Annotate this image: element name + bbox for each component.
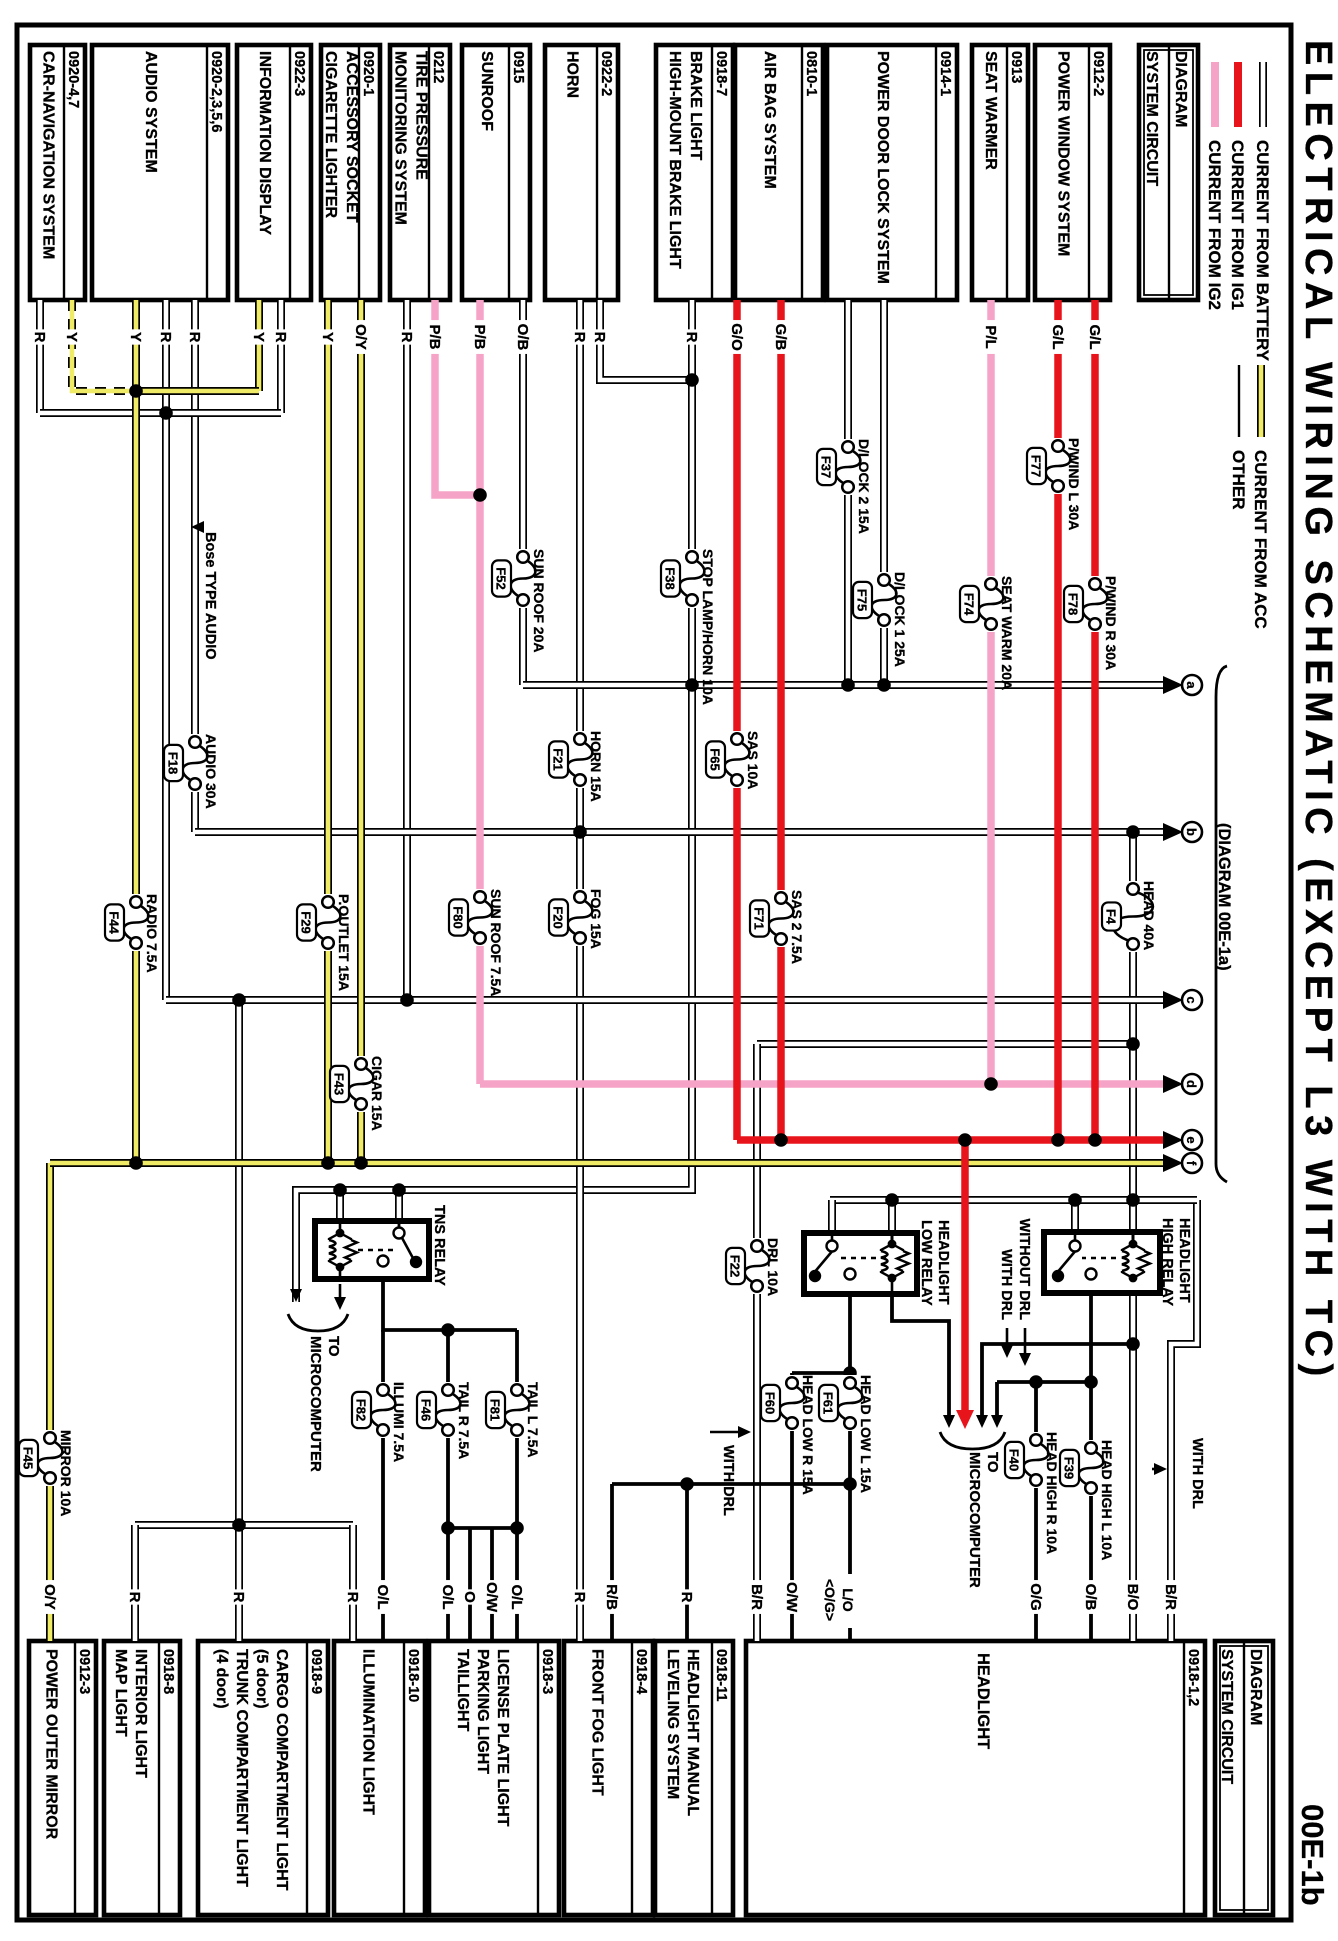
svg-text:D/LOCK 1 25A: D/LOCK 1 25A <box>892 572 908 667</box>
svg-text:0914-1: 0914-1 <box>937 51 953 96</box>
svg-text:b: b <box>1184 828 1199 836</box>
svg-text:f: f <box>1184 1161 1199 1166</box>
svg-text:MICROCOMPUTER: MICROCOMPUTER <box>307 1336 324 1472</box>
svg-text:<O/G>: <O/G> <box>822 1579 838 1621</box>
svg-text:POWER WINDOW SYSTEM: POWER WINDOW SYSTEM <box>1055 51 1072 256</box>
svg-text:0920-1: 0920-1 <box>360 51 376 96</box>
svg-text:F40: F40 <box>1007 1449 1022 1471</box>
svg-text:R: R <box>591 332 608 343</box>
svg-text:SUN ROOF 7.5A: SUN ROOF 7.5A <box>488 889 504 996</box>
svg-text:HEADLIGHT: HEADLIGHT <box>1176 1218 1192 1303</box>
svg-text:F43: F43 <box>332 1073 347 1095</box>
svg-text:F38: F38 <box>663 567 678 589</box>
svg-text:F37: F37 <box>819 456 834 478</box>
svg-text:F4: F4 <box>1104 909 1119 925</box>
svg-text:O/Y: O/Y <box>41 1584 58 1610</box>
svg-text:Bose TYPE AUDIO: Bose TYPE AUDIO <box>202 532 218 660</box>
svg-text:LEVELING SYSTEM: LEVELING SYSTEM <box>664 1649 681 1799</box>
svg-text:0918-9: 0918-9 <box>308 1649 324 1694</box>
svg-text:0918-7: 0918-7 <box>713 51 729 96</box>
svg-text:0918-10: 0918-10 <box>405 1649 421 1702</box>
svg-text:R: R <box>126 1592 143 1603</box>
svg-text:TO: TO <box>325 1336 342 1357</box>
svg-text:O/Y: O/Y <box>352 324 369 350</box>
svg-text:BRAKE LIGHT: BRAKE LIGHT <box>687 51 704 161</box>
svg-text:ELECTRICAL WIRING SCHEMATIC (E: ELECTRICAL WIRING SCHEMATIC (EXCEPT L3 W… <box>1297 40 1338 1383</box>
svg-text:P/L: P/L <box>982 325 999 348</box>
svg-text:d: d <box>1184 1080 1199 1088</box>
svg-text:HEAD HIGH L 10A: HEAD HIGH L 10A <box>1099 1440 1115 1560</box>
svg-text:0918-8: 0918-8 <box>160 1649 176 1694</box>
svg-text:INTERIOR LIGHT: INTERIOR LIGHT <box>132 1649 149 1778</box>
svg-text:CURRENT FROM IG2: CURRENT FROM IG2 <box>1205 140 1224 310</box>
svg-text:0913: 0913 <box>1008 51 1024 83</box>
svg-text:0918-1,2: 0918-1,2 <box>1185 1649 1201 1706</box>
svg-text:F45: F45 <box>21 1447 36 1469</box>
svg-text:0918-3: 0918-3 <box>539 1649 555 1694</box>
svg-text:F46: F46 <box>419 1399 434 1421</box>
svg-text:TNS RELAY: TNS RELAY <box>431 1205 447 1286</box>
svg-text:Y: Y <box>250 332 267 342</box>
svg-text:0918-4: 0918-4 <box>633 1649 649 1694</box>
svg-text:F78: F78 <box>1066 593 1081 615</box>
svg-text:Y: Y <box>63 332 80 342</box>
svg-text:HORN: HORN <box>564 51 581 98</box>
svg-text:O/L: O/L <box>508 1585 525 1610</box>
svg-text:SYSTEM CIRCUIT: SYSTEM CIRCUIT <box>1143 51 1160 186</box>
svg-text:SUNROOF: SUNROOF <box>478 51 495 131</box>
svg-text:WITH DRL: WITH DRL <box>998 1249 1014 1320</box>
svg-text:F80: F80 <box>451 906 466 928</box>
svg-text:O/W: O/W <box>783 1582 800 1613</box>
svg-text:HEADLIGHT MANUAL: HEADLIGHT MANUAL <box>684 1649 701 1816</box>
svg-text:F44: F44 <box>107 911 122 934</box>
svg-text:MICROCOMPUTER: MICROCOMPUTER <box>966 1452 983 1588</box>
svg-text:RADIO 7.5A: RADIO 7.5A <box>144 894 160 973</box>
svg-text:SEAT WARM 20A: SEAT WARM 20A <box>999 576 1015 690</box>
svg-text:(4 door): (4 door) <box>213 1649 230 1709</box>
svg-text:0920-2,3,5,6: 0920-2,3,5,6 <box>208 51 224 132</box>
svg-text:AUDIO SYSTEM: AUDIO SYSTEM <box>142 51 159 173</box>
svg-text:F22: F22 <box>728 1255 743 1277</box>
svg-text:R: R <box>683 332 700 343</box>
svg-text:R: R <box>230 1592 247 1603</box>
svg-text:O/B: O/B <box>1082 1584 1099 1611</box>
svg-text:O: O <box>461 1591 478 1603</box>
svg-text:O/B: O/B <box>514 324 531 351</box>
svg-text:TRUNK COMPARTMENT LIGHT: TRUNK COMPARTMENT LIGHT <box>233 1649 250 1887</box>
svg-text:MIRROR 10A: MIRROR 10A <box>58 1430 74 1516</box>
svg-text:CIGARETTE LIGHTER: CIGARETTE LIGHTER <box>322 51 339 219</box>
svg-text:F65: F65 <box>708 748 723 770</box>
svg-text:HORN 15A: HORN 15A <box>588 731 604 802</box>
svg-text:TAIL R 7.5A: TAIL R 7.5A <box>456 1382 472 1459</box>
svg-text:R/B: R/B <box>603 1584 620 1610</box>
svg-text:CURRENT FROM BATTERY: CURRENT FROM BATTERY <box>1253 140 1272 362</box>
svg-text:F77: F77 <box>1029 455 1044 477</box>
svg-text:0212: 0212 <box>430 51 446 83</box>
svg-text:PARKING LIGHT: PARKING LIGHT <box>474 1649 491 1774</box>
svg-text:F61: F61 <box>821 1392 836 1414</box>
svg-text:CURRENT FROM ACC: CURRENT FROM ACC <box>1251 450 1270 629</box>
svg-text:F29: F29 <box>299 911 314 933</box>
svg-text:STOP LAMP/HORN 10A: STOP LAMP/HORN 10A <box>700 549 716 705</box>
svg-text:DIAGRAM: DIAGRAM <box>1247 1649 1264 1725</box>
svg-text:WITHOUT DRL: WITHOUT DRL <box>1016 1219 1032 1321</box>
svg-text:F81: F81 <box>488 1399 503 1421</box>
svg-text:a: a <box>1184 681 1199 689</box>
svg-text:HEAD HIGH R 10A: HEAD HIGH R 10A <box>1044 1432 1060 1554</box>
svg-text:DIAGRAM: DIAGRAM <box>1172 51 1189 127</box>
svg-text:00E-1b: 00E-1b <box>1295 1804 1330 1906</box>
svg-text:R: R <box>344 1592 361 1603</box>
svg-text:P/B: P/B <box>471 324 488 349</box>
svg-text:SEAT WARMER: SEAT WARMER <box>982 51 999 170</box>
svg-text:0922-3: 0922-3 <box>291 51 307 96</box>
svg-text:AUDIO 30A: AUDIO 30A <box>203 734 219 809</box>
svg-text:R: R <box>678 1592 695 1603</box>
svg-text:O/L: O/L <box>374 1585 391 1610</box>
svg-text:LOW RELAY: LOW RELAY <box>918 1220 934 1306</box>
svg-text:G/B: G/B <box>772 324 789 351</box>
svg-text:SUN ROOF 20A: SUN ROOF 20A <box>531 549 547 652</box>
svg-text:HEAD 40A: HEAD 40A <box>1141 881 1157 950</box>
svg-text:c: c <box>1184 996 1199 1003</box>
svg-text:CIGAR 15A: CIGAR 15A <box>369 1056 385 1131</box>
svg-text:MAP LIGHT: MAP LIGHT <box>112 1649 129 1737</box>
svg-text:(DIAGRAM 00E-1a): (DIAGRAM 00E-1a) <box>1215 823 1233 971</box>
svg-text:B/O: B/O <box>1124 1584 1141 1611</box>
svg-text:HEADLIGHT: HEADLIGHT <box>935 1220 951 1305</box>
svg-text:F71: F71 <box>752 907 767 929</box>
svg-text:CURRENT FROM IG1: CURRENT FROM IG1 <box>1228 140 1247 310</box>
svg-text:DRL 10A: DRL 10A <box>765 1238 781 1296</box>
svg-text:R: R <box>186 332 203 343</box>
svg-text:O/L: O/L <box>439 1585 456 1610</box>
svg-text:R: R <box>398 332 415 343</box>
svg-text:HEAD LOW L 15A: HEAD LOW L 15A <box>858 1375 874 1493</box>
svg-text:MONITORING SYSTEM: MONITORING SYSTEM <box>392 51 409 225</box>
svg-text:F20: F20 <box>551 906 566 928</box>
svg-text:R: R <box>157 332 174 343</box>
svg-text:WITH DRL: WITH DRL <box>1189 1438 1205 1509</box>
svg-text:0918-11: 0918-11 <box>713 1649 729 1701</box>
svg-text:P/WIND L 30A: P/WIND L 30A <box>1066 438 1082 530</box>
svg-text:POWER DOOR LOCK SYSTEM: POWER DOOR LOCK SYSTEM <box>874 51 891 284</box>
svg-text:ILLUMI 7.5A: ILLUMI 7.5A <box>391 1382 407 1462</box>
svg-text:L/O: L/O <box>840 1588 856 1611</box>
svg-text:F18: F18 <box>166 752 181 774</box>
svg-text:WITH DRL: WITH DRL <box>720 1445 736 1516</box>
svg-text:SAS 2 7.5A: SAS 2 7.5A <box>789 890 805 964</box>
svg-text:F60: F60 <box>763 1392 778 1414</box>
svg-text:P.OUTLET 15A: P.OUTLET 15A <box>336 894 352 991</box>
svg-text:0912-3: 0912-3 <box>76 1649 92 1694</box>
svg-text:INFORMATION DISPLAY: INFORMATION DISPLAY <box>256 51 273 235</box>
svg-text:Y: Y <box>127 332 144 342</box>
svg-text:HIGH-MOUNT BRAKE LIGHT: HIGH-MOUNT BRAKE LIGHT <box>666 51 683 269</box>
svg-text:e: e <box>1184 1136 1199 1143</box>
svg-text:0915: 0915 <box>510 51 526 83</box>
svg-text:F82: F82 <box>354 1399 369 1421</box>
svg-text:R: R <box>31 332 48 343</box>
svg-text:POWER OUTER MIRROR: POWER OUTER MIRROR <box>43 1649 60 1840</box>
svg-text:B/R: B/R <box>1162 1584 1179 1610</box>
svg-text:TO: TO <box>984 1452 1001 1473</box>
svg-text:HIGH RELAY: HIGH RELAY <box>1159 1218 1175 1306</box>
svg-text:FRONT FOG LIGHT: FRONT FOG LIGHT <box>589 1649 606 1796</box>
svg-text:0922-2: 0922-2 <box>598 51 614 96</box>
svg-text:F39: F39 <box>1062 1457 1077 1479</box>
svg-text:LICENSE PLATE LIGHT: LICENSE PLATE LIGHT <box>494 1649 511 1827</box>
svg-text:P/WIND R 30A: P/WIND R 30A <box>1103 576 1119 670</box>
svg-text:ACCESSORY SOCKET: ACCESSORY SOCKET <box>343 51 360 223</box>
svg-text:TAILLIGHT: TAILLIGHT <box>454 1649 471 1732</box>
svg-text:CAR-NAVIGATION SYSTEM: CAR-NAVIGATION SYSTEM <box>40 51 57 259</box>
svg-text:R: R <box>272 332 289 343</box>
svg-text:0810-1: 0810-1 <box>803 51 819 96</box>
svg-text:SYSTEM CIRCUIT: SYSTEM CIRCUIT <box>1218 1649 1235 1784</box>
svg-text:AIR BAG SYSTEM: AIR BAG SYSTEM <box>761 51 778 189</box>
svg-text:Y: Y <box>319 332 336 342</box>
svg-text:O/W: O/W <box>483 1582 500 1613</box>
svg-text:F75: F75 <box>855 589 870 611</box>
svg-text:SAS 10A: SAS 10A <box>745 731 761 789</box>
svg-text:FOG 15A: FOG 15A <box>588 889 604 949</box>
svg-text:ILLUMINATION LIGHT: ILLUMINATION LIGHT <box>360 1649 377 1815</box>
svg-text:TAIL L 7.5A: TAIL L 7.5A <box>525 1382 541 1457</box>
svg-text:HEAD LOW R 15A: HEAD LOW R 15A <box>800 1375 816 1495</box>
svg-text:P/B: P/B <box>426 324 443 349</box>
svg-text:HEADLIGHT: HEADLIGHT <box>974 1653 992 1749</box>
svg-text:B/R: B/R <box>748 1584 765 1610</box>
svg-text:G/O: G/O <box>728 323 745 351</box>
svg-text:O/G: O/G <box>1027 1583 1044 1611</box>
svg-text:0912-2: 0912-2 <box>1090 51 1106 96</box>
svg-text:G/L: G/L <box>1049 325 1066 350</box>
svg-text:F21: F21 <box>551 748 566 770</box>
svg-text:(5 door): (5 door) <box>253 1649 270 1709</box>
svg-text:D/LOCK 2 15A: D/LOCK 2 15A <box>856 439 872 534</box>
svg-text:R: R <box>571 332 588 343</box>
svg-text:CARGO COMPARTMENT LIGHT: CARGO COMPARTMENT LIGHT <box>273 1649 290 1891</box>
svg-text:F52: F52 <box>494 567 509 589</box>
svg-text:F74: F74 <box>962 593 977 616</box>
svg-text:0920-4,7: 0920-4,7 <box>65 51 81 108</box>
svg-text:TIRE PRESSURE: TIRE PRESSURE <box>413 51 430 180</box>
svg-text:G/L: G/L <box>1086 325 1103 350</box>
svg-text:OTHER: OTHER <box>1229 450 1248 510</box>
svg-text:R: R <box>571 1592 588 1603</box>
